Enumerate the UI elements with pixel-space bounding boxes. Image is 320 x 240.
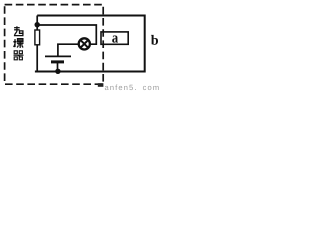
node junction dot upper — [35, 22, 40, 27]
terminal box a — [101, 32, 128, 44]
detonator box (起爆器 element) — [35, 30, 40, 45]
lamp L1 — [79, 38, 90, 49]
wire lamp left to battery — [58, 44, 79, 56]
wire outer loop (top, right, bottom) — [35, 16, 145, 72]
battery short thick plate — [51, 60, 64, 63]
label 起 (hand drawn) — [14, 26, 24, 35]
label 器 (hand drawn) — [14, 51, 24, 60]
dashed enclosure (exploder body) — [5, 5, 104, 85]
dashed corner blob bottom-right — [98, 83, 104, 87]
label b — [151, 35, 158, 45]
wire battery to bottom — [57, 63, 59, 72]
label 爆 (hand drawn) — [14, 39, 24, 48]
wire vertical lead through detonator box — [36, 16, 38, 72]
watermark — [105, 85, 159, 91]
label a — [112, 35, 118, 42]
node junction dot lower — [55, 69, 60, 74]
wire branch from dot to lamp riser — [37, 25, 96, 44]
battery long plate — [45, 55, 71, 57]
